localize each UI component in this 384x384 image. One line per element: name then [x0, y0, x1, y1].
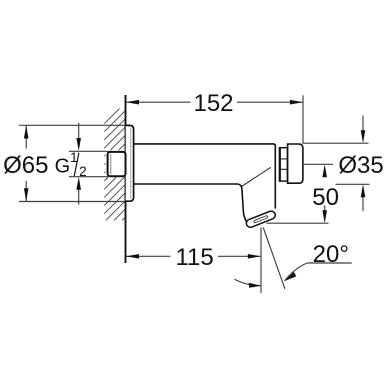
svg-text:50: 50	[312, 184, 339, 211]
svg-text:2: 2	[79, 164, 87, 179]
svg-text:Ø35: Ø35	[338, 152, 383, 179]
svg-text:152: 152	[193, 90, 233, 117]
svg-text:115: 115	[175, 244, 213, 271]
svg-text:20°: 20°	[313, 241, 349, 268]
svg-text:Ø65: Ø65	[3, 152, 48, 179]
svg-text:G: G	[55, 155, 71, 177]
